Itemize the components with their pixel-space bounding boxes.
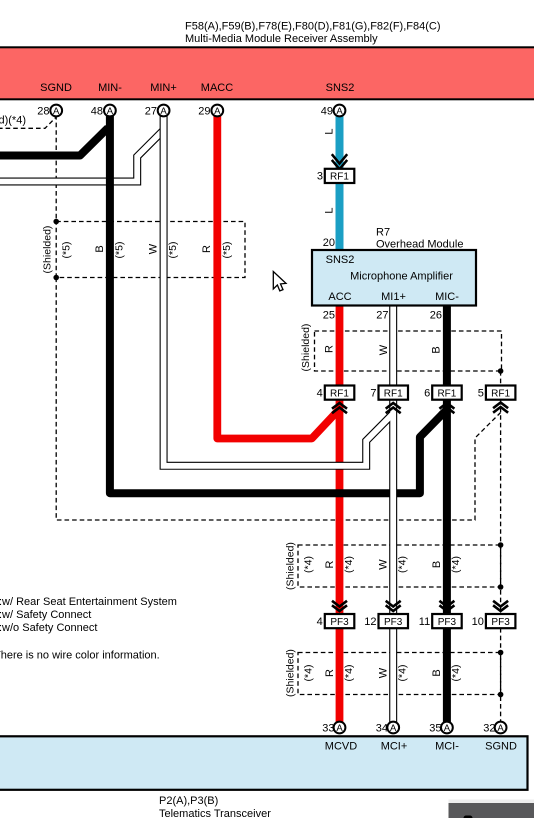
chevron into 5 RF1 bbox=[493, 403, 508, 413]
svg-text:R: R bbox=[324, 345, 336, 353]
svg-text:48: 48 bbox=[91, 105, 103, 117]
shield box PF3 to telematics bbox=[298, 653, 501, 695]
svg-text:A: A bbox=[214, 106, 221, 117]
svg-text:A: A bbox=[53, 106, 60, 117]
svg-text:(*4): (*4) bbox=[343, 556, 355, 573]
svg-text:A: A bbox=[336, 106, 343, 117]
pin 34 A bbox=[376, 722, 399, 735]
pin 48 A bbox=[91, 105, 116, 118]
junction dot mic-amp shield box bottom right bbox=[498, 368, 504, 374]
connector 10 PF3 bbox=[472, 614, 516, 628]
connector 7 RF1 bbox=[370, 386, 408, 400]
pin 35 A bbox=[429, 722, 453, 735]
svg-text:RF1: RF1 bbox=[491, 388, 510, 399]
svg-text:A: A bbox=[390, 723, 397, 734]
svg-text:R: R bbox=[201, 245, 213, 253]
wire W (white) incoming from left edge (outline) bbox=[0, 130, 164, 181]
svg-text:20: 20 bbox=[323, 237, 335, 249]
svg-text:RF1: RF1 bbox=[384, 388, 403, 399]
svg-text:11: 11 bbox=[419, 616, 430, 628]
svg-text:(*4): (*4) bbox=[343, 665, 355, 682]
svg-text:(Shielded)(*4): (Shielded)(*4) bbox=[0, 115, 26, 127]
svg-text:P2(A),P3(B): P2(A),P3(B) bbox=[159, 795, 218, 807]
connector 6 RF1 bbox=[424, 386, 462, 400]
svg-text:5: 5 bbox=[478, 387, 484, 399]
shield wire from 5 RF1 down to pin 32 bbox=[500, 400, 502, 722]
svg-text:12: 12 bbox=[364, 616, 376, 628]
junction dot shield box B top right bbox=[498, 542, 504, 548]
svg-text:6: 6 bbox=[424, 387, 430, 399]
svg-text:SNS2: SNS2 bbox=[326, 254, 355, 266]
junction dot left shield box bottom bbox=[53, 275, 59, 281]
junction dot left shield box top bbox=[53, 219, 59, 225]
svg-text:4: 4 bbox=[317, 387, 323, 399]
wire MACC R (red) branch from pin 29 to RF1 pin 4 bbox=[217, 115, 339, 439]
svg-text::w/ Safety Connect: :w/ Safety Connect bbox=[0, 609, 91, 621]
svg-text:27: 27 bbox=[145, 105, 157, 117]
wire MIN+ W (white) branch fill bbox=[164, 114, 394, 466]
chevron into 4 PF3 bbox=[332, 601, 347, 611]
connector 4 PF3 bbox=[317, 614, 355, 628]
svg-text:RF1: RF1 bbox=[330, 172, 349, 183]
connector 11 PF3 bbox=[419, 614, 462, 628]
svg-text:(*5): (*5) bbox=[221, 242, 233, 259]
svg-text:A: A bbox=[160, 106, 167, 117]
svg-text:(*5): (*5) bbox=[61, 242, 73, 259]
svg-text:There is no wire color informa: There is no wire color information. bbox=[0, 650, 160, 662]
popup box bottom right bbox=[449, 800, 534, 818]
svg-text:(*4): (*4) bbox=[397, 665, 409, 682]
pin 27 A bbox=[145, 105, 170, 118]
svg-text:L: L bbox=[324, 207, 336, 213]
svg-text:(*5): (*5) bbox=[114, 242, 126, 259]
svg-text:A: A bbox=[497, 723, 504, 734]
svg-text:R7: R7 bbox=[376, 227, 390, 239]
pin 32 A bbox=[483, 722, 506, 735]
chevron into 4 RF1 bbox=[332, 403, 347, 413]
pin 33 A bbox=[322, 722, 345, 735]
svg-text:25: 25 bbox=[323, 310, 335, 322]
wire W (white) main fill bbox=[390, 305, 396, 722]
svg-text:(Shielded): (Shielded) bbox=[285, 542, 297, 590]
svg-text:PF3: PF3 bbox=[330, 617, 349, 628]
svg-text:4: 4 bbox=[317, 616, 323, 628]
svg-text:10: 10 bbox=[472, 616, 484, 628]
wire W (white) main: mic-amp MI1+ down to pin 34 (outline) bbox=[389, 306, 397, 722]
svg-text:R: R bbox=[324, 560, 336, 568]
pin 29 A bbox=[198, 105, 223, 118]
svg-text:ACC: ACC bbox=[328, 291, 351, 303]
svg-text:A: A bbox=[444, 723, 451, 734]
svg-text:R: R bbox=[324, 669, 336, 677]
wire R (red) main: mic-amp ACC down to pin 33 bbox=[336, 306, 344, 722]
svg-text:3: 3 bbox=[317, 171, 323, 183]
svg-text:34: 34 bbox=[376, 722, 388, 734]
svg-text:Microphone Amplifier: Microphone Amplifier bbox=[350, 271, 453, 283]
svg-text:L: L bbox=[324, 128, 336, 134]
svg-text:28: 28 bbox=[37, 105, 49, 117]
connector 4 RF1 bbox=[317, 386, 355, 400]
svg-text:(*4): (*4) bbox=[303, 556, 315, 573]
svg-text:PF3: PF3 bbox=[491, 617, 510, 628]
shield box RF1 to PF3 bbox=[298, 545, 501, 587]
svg-text:(*4): (*4) bbox=[450, 665, 462, 682]
junction dot shield box C top right bbox=[498, 650, 504, 656]
shield wire from pin 28 down bbox=[55, 115, 57, 222]
svg-text:A: A bbox=[107, 106, 114, 117]
svg-text:29: 29 bbox=[198, 105, 210, 117]
svg-text:27: 27 bbox=[376, 310, 388, 322]
chevron into 7 RF1 bbox=[386, 403, 401, 413]
svg-text:A: A bbox=[336, 723, 343, 734]
svg-text:(Shielded): (Shielded) bbox=[300, 324, 312, 372]
svg-text:PF3: PF3 bbox=[384, 617, 403, 628]
svg-text:W: W bbox=[378, 344, 390, 355]
svg-text:49: 49 bbox=[321, 105, 333, 117]
pin 49 A bbox=[321, 105, 346, 118]
shield wire from mic-amp shield box to 5 RF1 bbox=[500, 371, 502, 386]
overhead module R7 box bbox=[312, 250, 476, 306]
shield box around mic-amp wires bbox=[315, 331, 502, 371]
svg-text:(*4): (*4) bbox=[450, 556, 462, 573]
shield box around MIN wires (left) bbox=[56, 222, 245, 278]
svg-text:SGND: SGND bbox=[40, 82, 72, 94]
Multi-Media Module Receiver Assembly banner bbox=[0, 47, 534, 99]
svg-text:RF1: RF1 bbox=[330, 388, 349, 399]
svg-text:MIN-: MIN- bbox=[98, 82, 122, 94]
wire MIN- B (black) branch from pin 48 to RF1 pin 6 bbox=[110, 115, 447, 493]
shield wire from box to RF1 pin 5 bbox=[56, 278, 500, 521]
svg-text:B: B bbox=[431, 346, 443, 353]
svg-text::w/ Rear Seat Entertainment Sy: :w/ Rear Seat Entertainment System bbox=[0, 596, 177, 608]
svg-text:35: 35 bbox=[429, 722, 441, 734]
svg-text:W: W bbox=[148, 243, 160, 254]
svg-text:PF3: PF3 bbox=[438, 617, 457, 628]
svg-text:SGND: SGND bbox=[485, 741, 517, 753]
svg-text:B: B bbox=[431, 561, 443, 568]
chevron into 3 RF1 bbox=[332, 154, 347, 169]
wire SNS2 L (cyan) from pin 49 to overhead module bbox=[336, 115, 344, 251]
svg-text:(Shielded): (Shielded) bbox=[42, 226, 54, 274]
svg-text:MI1+: MI1+ bbox=[381, 291, 406, 303]
chevron into 11 PF3 bbox=[439, 601, 454, 611]
telematics transceiver box bbox=[0, 736, 528, 790]
wire MIN+ W (white) branch from pin 27 to RF1 pin 7 (outline) bbox=[164, 115, 394, 466]
svg-text:B: B bbox=[94, 245, 106, 252]
svg-text:(*4): (*4) bbox=[397, 556, 409, 573]
connector 12 PF3 bbox=[364, 614, 408, 628]
svg-text::w/o Safety Connect: :w/o Safety Connect bbox=[0, 622, 97, 634]
svg-text:SNS2: SNS2 bbox=[326, 82, 355, 94]
connector 5 RF1 bbox=[478, 386, 516, 400]
connector 3 RF1 bbox=[317, 169, 354, 183]
svg-text:MIC-: MIC- bbox=[435, 291, 459, 303]
svg-text:F58(A),F59(B),F78(E),F80(D),F8: F58(A),F59(B),F78(E),F80(D),F81(G),F82(F… bbox=[185, 21, 440, 33]
chevron into 12 PF3 bbox=[386, 601, 401, 611]
svg-text:RF1: RF1 bbox=[437, 388, 456, 399]
svg-text:26: 26 bbox=[430, 310, 442, 322]
junction dot shield box B bottom right bbox=[498, 584, 504, 590]
chevron into 10 PF3 bbox=[493, 601, 508, 611]
svg-text:33: 33 bbox=[322, 722, 334, 734]
svg-text:7: 7 bbox=[370, 387, 376, 399]
chevron into 6 RF1 bbox=[439, 403, 454, 413]
svg-text:32: 32 bbox=[483, 722, 495, 734]
svg-text:MCVD: MCVD bbox=[325, 741, 357, 753]
svg-text:MACC: MACC bbox=[201, 82, 233, 94]
shield wire stub from pin 28 to left edge bbox=[0, 117, 56, 128]
junction dot shield box C bottom right bbox=[498, 692, 504, 698]
svg-text:Telematics Transceiver: Telematics Transceiver bbox=[159, 808, 271, 818]
svg-text:(*4): (*4) bbox=[303, 665, 315, 682]
svg-text:B: B bbox=[431, 669, 443, 676]
pin 28 A bbox=[37, 105, 62, 118]
svg-text:MCI-: MCI- bbox=[435, 741, 459, 753]
svg-text:(Shielded): (Shielded) bbox=[285, 649, 297, 697]
svg-text:Multi-Media Module Receiver As: Multi-Media Module Receiver Assembly bbox=[185, 33, 378, 45]
wire W (white) incoming from left edge fill bbox=[0, 130, 164, 181]
mouse cursor bbox=[273, 272, 286, 291]
svg-text:W: W bbox=[378, 667, 390, 678]
svg-text:MCI+: MCI+ bbox=[381, 741, 408, 753]
wire B (black) main: mic-amp MIC- down to pin 35 bbox=[443, 306, 451, 722]
svg-text:(*5): (*5) bbox=[167, 242, 179, 259]
svg-text:MIN+: MIN+ bbox=[150, 82, 177, 94]
wire B (black) incoming from left edge to pin 48 wire bbox=[0, 128, 108, 156]
svg-text:W: W bbox=[378, 559, 390, 570]
svg-text:Overhead Module: Overhead Module bbox=[376, 239, 463, 251]
